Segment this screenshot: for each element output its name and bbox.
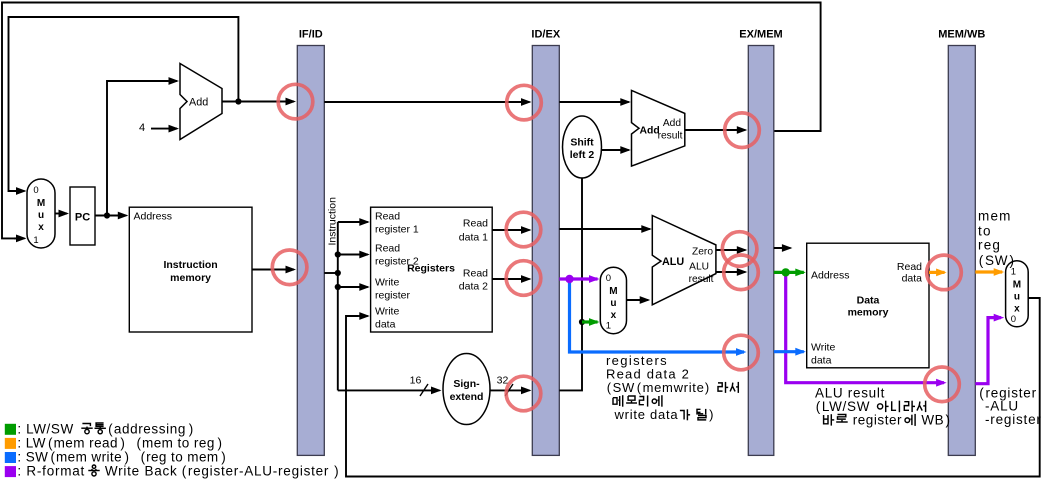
svg-text:(: ( xyxy=(816,399,821,414)
svg-text:mem: mem xyxy=(978,208,1012,223)
svg-text:data 2: data 2 xyxy=(459,281,488,293)
svg-text:Add: Add xyxy=(189,97,208,109)
svg-text:data: data xyxy=(375,319,396,331)
highlight circle: EX/MEM Zero input xyxy=(722,232,757,267)
wire: PC to instruction memory Address xyxy=(95,215,126,217)
svg-text:): ) xyxy=(1010,253,1015,268)
wire: Read data 1 to ID/EX xyxy=(492,229,529,231)
svg-text:data 1: data 1 xyxy=(459,232,488,244)
svg-text:): ) xyxy=(709,407,713,422)
svg-text:Add: Add xyxy=(663,118,681,129)
highlight circle: ID/EX Read data 1 input xyxy=(506,212,541,247)
wire (green): ALU result from EX/MEM to Data memory Address xyxy=(774,271,804,274)
wire: instruction memory output to IF/ID xyxy=(252,269,294,271)
svg-text:Read: Read xyxy=(463,268,488,280)
svg-text:Data: Data xyxy=(857,295,880,307)
svg-text:ALU: ALU xyxy=(662,256,684,268)
svg-text:(: ( xyxy=(137,435,142,450)
legend swatch: green LW/SW common xyxy=(5,424,16,435)
wire: 4 to Add xyxy=(151,128,177,130)
wire: instruction from IF/ID to register-file bus xyxy=(324,272,338,274)
wire: PC+4 from IF/ID to ID/EX xyxy=(324,101,529,103)
svg-text:): ) xyxy=(120,435,125,450)
svg-text:MEM/WB: MEM/WB xyxy=(938,29,985,41)
svg-text:): ) xyxy=(946,413,951,428)
svg-text:(: ( xyxy=(48,435,53,450)
svg-text:x: x xyxy=(611,310,617,321)
node: bus junction for Read register 2 xyxy=(335,251,341,257)
svg-text:-register: -register xyxy=(985,412,1042,427)
svg-text:mem read: mem read xyxy=(54,435,118,450)
svg-text:Address: Address xyxy=(134,211,173,223)
svg-text:): ) xyxy=(334,464,339,479)
svg-text:ID/EX: ID/EX xyxy=(531,29,560,41)
highlight circle: ID/EX PC+4 input xyxy=(507,85,542,120)
wire (purple): Read data 2 from ID/EX to ALU mux input 0 xyxy=(559,277,597,280)
wire: ALU result output to EX/MEM xyxy=(716,271,745,273)
svg-text:): ) xyxy=(705,380,709,395)
wire (purple): ALU result down-around to MEM/WB xyxy=(786,272,944,382)
svg-text:(: ( xyxy=(979,253,984,268)
node: bus junction for Write register xyxy=(335,284,341,290)
highlight circle: MEM/WB ALU result input xyxy=(925,367,960,402)
wire: instruction immediate to Sign-extend xyxy=(338,389,440,391)
svg-text:register 1: register 1 xyxy=(375,224,419,236)
svg-text:reg to mem: reg to mem xyxy=(146,450,218,465)
wire: PC+4 from ID/EX to branch Add xyxy=(559,101,629,103)
svg-text:: LW: : LW xyxy=(17,435,46,450)
highlight circle: ID/EX Read data 2 input xyxy=(506,261,541,296)
svg-text:1: 1 xyxy=(606,321,611,332)
svg-text:): ) xyxy=(221,450,226,465)
wire: PC to Add (PC+4) xyxy=(107,81,168,216)
svg-text:u: u xyxy=(38,210,44,221)
wire: instruction to Write register xyxy=(338,286,368,288)
svg-text:extend: extend xyxy=(450,391,484,403)
svg-text:(: ( xyxy=(182,464,187,479)
wire (blue): write data from EX/MEM to Data memory xyxy=(774,350,804,353)
svg-text:u: u xyxy=(1014,292,1020,303)
pipeline register EX/MEM xyxy=(748,46,774,456)
legend swatch: orange LW mem read xyxy=(5,438,16,449)
svg-text:to: to xyxy=(978,223,992,238)
memory: Instruction memory xyxy=(129,207,252,332)
node: immediate junction to ALU mux xyxy=(579,319,585,325)
svg-text:write data: write data xyxy=(614,407,679,422)
svg-text:(: ( xyxy=(108,421,113,436)
svg-text:SW: SW xyxy=(613,380,635,395)
svg-text:WB: WB xyxy=(917,413,944,428)
svg-text:reg: reg xyxy=(978,238,1001,253)
oval: Shift left 2 unit xyxy=(563,116,602,178)
svg-text:M: M xyxy=(609,286,617,297)
svg-text:data: data xyxy=(902,273,923,285)
svg-text:mem to reg: mem to reg xyxy=(142,435,215,450)
svg-text:register-ALU-register: register-ALU-register xyxy=(188,464,329,479)
wire: mux M1 output to PC xyxy=(55,213,67,215)
node: bus junction instruction line xyxy=(335,270,341,276)
svg-text:IF/ID: IF/ID xyxy=(299,29,323,41)
svg-text:Registers: Registers xyxy=(407,263,455,275)
node (purple): Read data 2 branch junction xyxy=(565,275,573,283)
wire (orange): Read data from MEM/WB to write-back mux input 1 xyxy=(975,270,1002,273)
svg-text:Zero: Zero xyxy=(692,247,713,258)
highlight circle: EX/MEM write data input xyxy=(724,335,759,370)
svg-text:register: register xyxy=(375,290,411,302)
svg-text:(: ( xyxy=(141,450,146,465)
svg-text:: LW/SW: : LW/SW xyxy=(17,421,78,436)
svg-text:PC: PC xyxy=(75,212,90,224)
svg-text:: R-format: : R-format xyxy=(17,464,85,479)
highlight circle: ID/EX sign-extend input xyxy=(506,376,541,411)
node: PC output junction xyxy=(104,212,110,218)
svg-text:ALU: ALU xyxy=(689,262,709,273)
svg-text:0: 0 xyxy=(1011,314,1016,325)
wire: Sign-extend output to ID/EX xyxy=(490,389,530,391)
register PC xyxy=(70,187,95,245)
svg-text:data: data xyxy=(811,355,832,367)
pipeline register ID/EX xyxy=(532,46,559,456)
mux M3 (write-back mux) xyxy=(1006,261,1029,327)
svg-text:4: 4 xyxy=(139,122,145,134)
highlight circle: EX/MEM ALU result input xyxy=(724,255,759,290)
svg-text:Instruction: Instruction xyxy=(163,259,217,271)
ALU xyxy=(652,216,716,305)
svg-text:Read: Read xyxy=(463,218,488,230)
svg-text:Read: Read xyxy=(897,261,922,273)
mux M2 (ALU operand B mux) xyxy=(600,267,626,334)
svg-text:x: x xyxy=(38,222,44,233)
highlight circle: IF/ID instruction input xyxy=(272,250,307,285)
svg-text:SW: SW xyxy=(985,253,1008,268)
wire (orange): Data memory Read data to MEM/WB xyxy=(929,271,945,274)
highlight circle: EX/MEM branch target input xyxy=(725,113,760,148)
legend swatch: blue SW mem write xyxy=(5,452,16,463)
svg-text:(: ( xyxy=(637,380,642,395)
svg-text:result: result xyxy=(658,131,683,142)
svg-text:Write: Write xyxy=(811,342,835,354)
svg-text:Shift: Shift xyxy=(570,137,594,149)
svg-text:Write: Write xyxy=(375,277,399,289)
adder Add (PC+4) xyxy=(180,64,222,140)
svg-text:Write Back: Write Back xyxy=(100,464,177,479)
svg-text:): ) xyxy=(218,435,223,450)
svg-text:register: register xyxy=(848,413,902,428)
svg-text:Sign-: Sign- xyxy=(453,378,480,390)
svg-text:): ) xyxy=(125,450,130,465)
pipeline register IF/ID xyxy=(297,46,324,456)
node: Add output junction xyxy=(235,98,241,104)
svg-text:M: M xyxy=(1013,280,1021,291)
svg-text:memory: memory xyxy=(170,272,211,284)
wire: instruction to Read register 1 xyxy=(338,221,368,223)
node (green): ALU result junction xyxy=(782,268,790,276)
svg-text:(: ( xyxy=(607,380,612,395)
oval: Sign-extend unit xyxy=(443,354,490,425)
svg-text:): ) xyxy=(189,421,194,436)
adder Add (branch target) xyxy=(632,90,685,166)
mux M1 (PC source mux) xyxy=(27,179,55,248)
wire: branch Add result to EX/MEM xyxy=(685,129,746,131)
highlight circle: MEM/WB read data input xyxy=(927,255,962,290)
wire: Read data 2 to ID/EX xyxy=(492,278,529,280)
svg-text:(: ( xyxy=(979,386,984,401)
wire: Add output junction to IF/ID register xyxy=(238,101,294,103)
wire: write-back data return path from final mux to Write data xyxy=(346,298,1040,477)
wire: Add output to IF/ID xyxy=(222,101,238,103)
wire: ALU Zero output to EX/MEM xyxy=(716,249,745,251)
svg-text:1: 1 xyxy=(33,235,38,246)
register file: Registers xyxy=(371,207,493,332)
svg-text:EX/MEM: EX/MEM xyxy=(739,29,782,41)
svg-text:left 2: left 2 xyxy=(570,149,595,161)
svg-text:memory: memory xyxy=(848,307,889,319)
svg-text:0: 0 xyxy=(33,185,38,196)
wire: sign-extended immediate from ID/EX up to Shift left 2 xyxy=(559,178,582,390)
wire: Shift left 2 output to branch Add xyxy=(602,149,629,151)
pipeline register MEM/WB xyxy=(948,46,975,456)
svg-text:1: 1 xyxy=(1011,267,1016,278)
wire: PC+4 feedback from Add output to PC mux input 0 xyxy=(9,17,239,191)
svg-text:Address: Address xyxy=(811,270,850,282)
legend swatch: purple R-format write back xyxy=(5,466,16,477)
svg-text:Instruction: Instruction xyxy=(327,197,339,246)
wire: mux M2 output to ALU xyxy=(627,299,649,301)
svg-text:0: 0 xyxy=(606,273,611,284)
wire (green): immediate to ALU mux input 1 xyxy=(582,320,598,323)
wire: Zero stub after EX/MEM xyxy=(774,247,791,249)
wire: instruction to Read register 2 xyxy=(338,254,368,256)
wire (purple): ALU result from MEM/WB to write-back mux input 0 xyxy=(975,318,1001,384)
wire (blue): Read data 2 to EX/MEM write data xyxy=(570,279,745,352)
svg-text:: SW: : SW xyxy=(17,450,48,465)
svg-text:M: M xyxy=(37,198,45,209)
svg-text:Read: Read xyxy=(375,243,400,255)
svg-text:mem write: mem write xyxy=(56,450,122,465)
svg-text:memwrite: memwrite xyxy=(643,380,705,395)
svg-text:u: u xyxy=(610,298,616,309)
svg-text:result: result xyxy=(689,274,714,285)
memory: Data memory xyxy=(807,243,929,368)
svg-text:Read: Read xyxy=(375,211,400,223)
svg-text:(: ( xyxy=(51,450,56,465)
svg-text:Write: Write xyxy=(375,306,399,318)
svg-text:addressing: addressing xyxy=(114,421,186,436)
wire: Read data 1 from ID/EX to ALU xyxy=(559,228,650,230)
wire: instruction bus vertical xyxy=(337,222,339,390)
svg-text:16: 16 xyxy=(410,375,422,387)
wire: branch-target feedback from EX/MEM Add result to PC mux input 1 xyxy=(2,3,821,239)
highlight circle: IF/ID PC+4 input xyxy=(278,84,313,119)
